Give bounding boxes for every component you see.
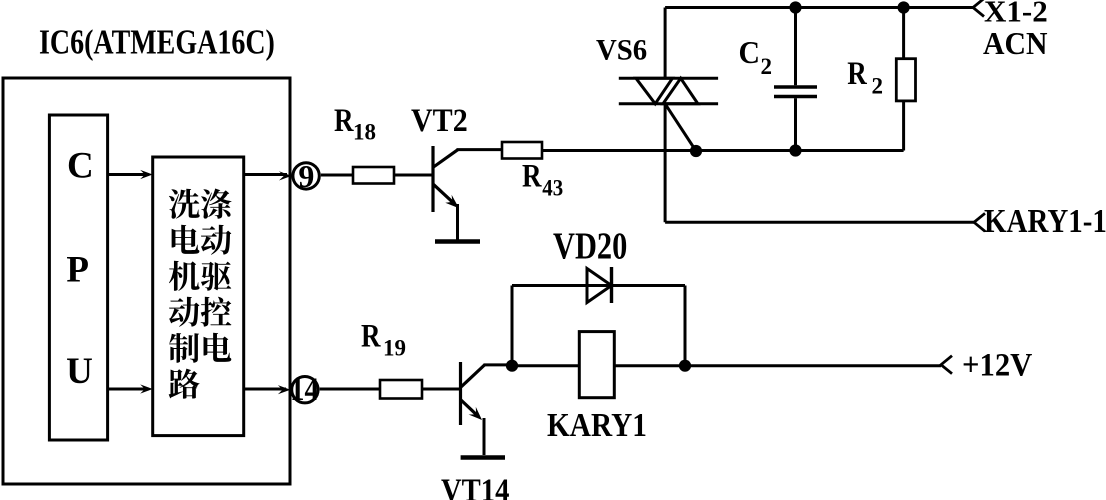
VT14 emitter wire — [483, 418, 486, 455]
VT2 emitter arrow — [445, 195, 459, 208]
svg-text:R: R — [522, 157, 543, 194]
capacitor C2 plates — [774, 85, 817, 88]
VD20 branch left vertical — [511, 286, 514, 366]
VD20 branch top wire — [512, 284, 685, 287]
ground VT14 — [461, 455, 505, 460]
svg-text:VT14: VT14 — [441, 471, 509, 500]
IC6 outer block — [3, 78, 290, 484]
svg-text:2: 2 — [761, 54, 773, 79]
VT14 emitter arrow — [469, 407, 482, 420]
arrow into pin 14 — [278, 385, 291, 394]
svg-text:IC6(ATMEGA16C): IC6(ATMEGA16C) — [39, 23, 275, 62]
CPU box — [49, 115, 107, 440]
wire CPU to box (C row) — [108, 173, 149, 176]
resistor R2 — [896, 59, 915, 101]
transistor VT14 — [461, 362, 486, 425]
node relay / VD20 right — [679, 360, 691, 372]
svg-text:KARY1-1: KARY1-1 — [984, 202, 1106, 240]
svg-text:VT2: VT2 — [411, 102, 468, 139]
resistor R43 — [502, 142, 542, 159]
triac VS6 triangle down — [636, 78, 672, 104]
svg-text:VD20: VD20 — [553, 225, 627, 267]
wire collector dot to relay — [512, 364, 579, 367]
svg-text:9: 9 — [298, 158, 314, 194]
mid wire R43 to R2 — [542, 149, 904, 152]
node gate / mid wire — [690, 145, 702, 157]
terminal X1-2 — [973, 0, 984, 17]
wire right dot to +12V — [685, 364, 941, 367]
terminal KARY1-1 — [974, 213, 985, 231]
VT2 emitter wire — [456, 204, 459, 241]
svg-text:43: 43 — [542, 175, 563, 201]
svg-text:R: R — [847, 54, 868, 91]
resistor R2 wire top — [902, 8, 905, 59]
wire pin14 to R19 — [320, 388, 380, 391]
CJK text box — [153, 157, 244, 436]
svg-text:2: 2 — [872, 74, 884, 99]
arrow into box C row — [140, 170, 153, 179]
resistor R2 wire bottom — [902, 101, 905, 151]
svg-text:14: 14 — [290, 370, 319, 407]
top wire to X1-2 — [665, 6, 974, 9]
arrowheads solid — [140, 170, 482, 420]
node top wire / C2 — [789, 1, 801, 13]
triac VS6 rails — [619, 77, 718, 80]
svg-text:VS6: VS6 — [596, 34, 647, 67]
triac VS6 vertical MT2 (top) — [664, 8, 667, 79]
triac VS6 gate — [665, 104, 696, 151]
arrow into box U row — [140, 384, 153, 393]
diode VD20 triangle — [587, 269, 612, 303]
VD20 branch right vertical — [684, 286, 687, 366]
svg-text:P: P — [66, 250, 89, 291]
terminal chevrons — [941, 0, 985, 374]
pin 9 circle — [293, 163, 319, 189]
svg-text:+12V: +12V — [962, 346, 1032, 382]
wire relay to right dot — [614, 364, 685, 367]
svg-text:C: C — [67, 146, 94, 187]
svg-text:18: 18 — [353, 120, 376, 145]
wire CPU to box (U row) — [108, 388, 149, 391]
svg-text:ACN: ACN — [983, 25, 1047, 61]
KARY1-1 wire — [665, 221, 974, 224]
wire box to pin 9 — [244, 173, 287, 176]
svg-text:KARY1: KARY1 — [547, 406, 647, 443]
node top wire / R2 — [898, 1, 910, 13]
wire pin9 to R18 — [321, 174, 353, 177]
relay coil KARY1 — [579, 332, 614, 398]
pin 14 circle — [292, 377, 318, 403]
transistor VT2 — [433, 146, 458, 212]
node VT14 collector / VD20 — [506, 360, 518, 372]
wire R19 to VT14 base — [422, 388, 461, 391]
resistor R19 — [380, 380, 422, 399]
terminal +12V — [941, 356, 952, 374]
ground VT2 — [435, 239, 480, 244]
svg-text:U: U — [66, 351, 93, 392]
capacitor C2 wire top — [794, 8, 797, 86]
arrow into pin 9 — [279, 171, 292, 180]
diode VD20 cathode bar — [610, 267, 613, 303]
wire box to pin 14 — [244, 388, 286, 391]
triac VS6 vertical MT1 (bottom) — [664, 104, 667, 223]
triac VS6 triangle up — [663, 78, 698, 104]
wire R18 to VT2 base — [394, 174, 433, 177]
svg-text:19: 19 — [383, 336, 406, 361]
svg-text:C: C — [739, 34, 760, 70]
svg-text:R: R — [334, 101, 355, 138]
capacitor C2 wire bottom — [794, 98, 797, 150]
node C2 / mid wire — [789, 144, 801, 156]
resistor R18 — [353, 167, 394, 184]
text 洗涤电动机驱动控制电路 (washing motor drive control circuit) — [169, 189, 232, 399]
VT14 collector wire — [484, 363, 513, 366]
VT2 collector wire — [457, 148, 503, 151]
svg-text:R: R — [361, 317, 382, 354]
